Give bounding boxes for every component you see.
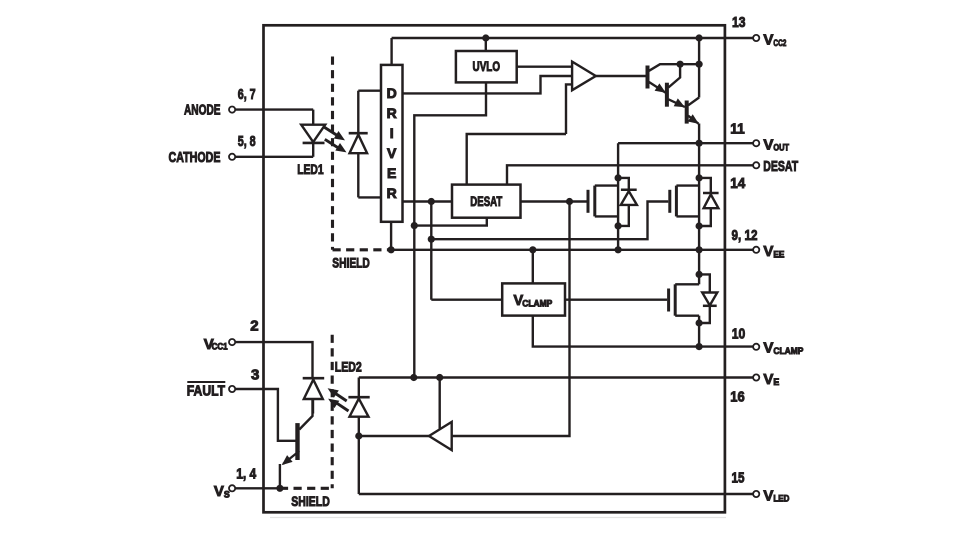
LED2 label [335, 359, 362, 375]
svg-text:1, 4: 1, 4 [236, 465, 257, 482]
svg-text:LED1: LED1 [297, 161, 324, 177]
wire DESAT out to M1 gate [521, 200, 587, 202]
node UVLO-DESAT join [411, 222, 418, 229]
pin VOUT terminal [753, 140, 759, 146]
wire FAULT to Q4 base [235, 389, 296, 441]
node M3 source [696, 319, 703, 326]
wire VCC2 rail [392, 37, 754, 39]
LED1 cathode wire [312, 143, 314, 157]
svg-text:V: V [387, 145, 397, 161]
wire DESAT to buffer [566, 84, 574, 134]
transistor Q4 [280, 399, 313, 488]
svg-text:E: E [387, 165, 396, 181]
wire LED2 to VLED [358, 417, 360, 494]
svg-text:5, 8: 5, 8 [238, 133, 256, 150]
node DESAT left [428, 198, 435, 205]
pin VCC1 label [204, 336, 228, 353]
svg-text:I: I [390, 125, 394, 141]
svg-text:14: 14 [730, 175, 746, 192]
UVLO block [456, 51, 517, 82]
node VEE-M1 [615, 246, 622, 253]
body diode M3 [699, 274, 717, 323]
node rail-UVLO [482, 34, 489, 41]
wire UVLO-DESAT to VE [413, 226, 415, 378]
LED1 anode wire [312, 110, 314, 126]
svg-text:V: V [763, 243, 773, 260]
svg-text:CC1: CC1 [212, 342, 228, 352]
wire ANODE to LED1 [235, 108, 313, 110]
pin 11 label [730, 121, 745, 138]
wire inverter out to LED2 [359, 435, 429, 437]
photodiode PD2 [303, 378, 325, 413]
svg-text:CATHODE: CATHODE [169, 150, 221, 166]
pin VCC2 terminal [753, 35, 759, 41]
svg-text:16: 16 [730, 389, 745, 406]
node Q1-Q2 collector [677, 61, 684, 68]
svg-text:V: V [763, 137, 773, 154]
transistor Q1 [648, 64, 700, 93]
wire VE to inverter top [439, 378, 441, 429]
DESAT block [452, 185, 521, 218]
svg-text:V: V [763, 32, 773, 49]
optical arrow LED1 a [324, 127, 345, 140]
pin ANODE label [184, 103, 221, 119]
body diode M2 [699, 178, 719, 226]
pin 1,4 label [236, 465, 257, 482]
optical arrow LED2 b [328, 399, 348, 411]
transistor Q3 [687, 98, 699, 124]
pin VS label [214, 483, 230, 500]
pin VEE terminal [753, 247, 759, 253]
pin 9,12 label [732, 227, 758, 244]
wire DESAT-left to VCLAMP [430, 202, 432, 300]
wire PD1 bottom to DRIVER [358, 196, 382, 198]
wire VCC1 to photodiode PD2 [235, 342, 313, 378]
svg-text:CLAMP: CLAMP [773, 346, 803, 356]
svg-text:ANODE: ANODE [184, 103, 221, 119]
pin 16 label [730, 389, 745, 406]
svg-text:V: V [763, 340, 773, 357]
pin VCC2 label [763, 32, 786, 49]
svg-text:13: 13 [732, 14, 746, 31]
wire CATHODE to LED1 [235, 156, 313, 158]
wire VCLAMP bottom to pin10 line [533, 316, 754, 347]
svg-text:15: 15 [732, 469, 745, 486]
pin VCC1 terminal [229, 339, 235, 345]
wire rail to UVLO [485, 38, 487, 51]
pin CATHODE label [169, 150, 221, 166]
SHIELD label (bottom) [291, 493, 330, 509]
node M3 drain [696, 271, 703, 278]
LED1 diode [301, 125, 325, 143]
inverter U3 [429, 422, 452, 450]
svg-text:OUT: OUT [773, 143, 789, 153]
pin 6,7 label [238, 86, 256, 103]
node LED2 cathode [355, 432, 362, 439]
pin VS terminal [229, 485, 235, 491]
page rule (faint) [270, 517, 726, 519]
buffer amp U2 [572, 62, 596, 91]
svg-text:DESAT: DESAT [470, 194, 502, 209]
pin ANODE terminal [229, 107, 235, 113]
pin VE label [763, 371, 779, 388]
svg-text:SHIELD: SHIELD [332, 255, 370, 271]
wire VLED line [359, 493, 754, 495]
wire VS [235, 487, 280, 489]
pin DESAT terminal [753, 162, 759, 168]
photodiode PD1 [349, 91, 368, 198]
wire VEE line [391, 249, 753, 251]
node VEE-M3 [696, 246, 703, 253]
transistor Q2 [667, 64, 685, 107]
wire collector rail [698, 38, 700, 98]
wire UVLO out to buffer [517, 65, 572, 67]
svg-text:DESAT: DESAT [763, 158, 798, 175]
node M1 source [615, 222, 622, 229]
svg-text:FAULT: FAULT [187, 384, 225, 400]
body diode M1 [618, 178, 637, 226]
shield 2 dashed line [280, 335, 332, 489]
svg-text:LED: LED [773, 494, 789, 504]
svg-text:V: V [763, 371, 773, 388]
LED2 diode [348, 397, 369, 417]
pin CATHODE terminal [229, 154, 235, 160]
pin VCLAMP terminal [753, 344, 759, 350]
wire VOUT line [618, 142, 753, 144]
node VEE-VCLAMP [529, 246, 536, 253]
mosfet M3 [669, 284, 700, 315]
shield 1 dashed line [333, 57, 389, 250]
pin 2 label [250, 318, 258, 335]
pin 14 label [730, 175, 746, 192]
pin 13 label [732, 14, 746, 31]
wire DESAT pin line [507, 165, 753, 184]
pin FAULT terminal [229, 386, 235, 392]
svg-text:2: 2 [250, 318, 258, 335]
svg-text:V: V [214, 483, 224, 500]
wire DRIVER top to VCC2 rail [390, 38, 392, 65]
svg-text:CC2: CC2 [773, 38, 786, 48]
svg-text:R: R [387, 185, 397, 201]
svg-text:V: V [763, 487, 773, 504]
VCLAMP block [502, 283, 565, 315]
wire VCLAMP out to M3 gate [565, 299, 667, 301]
svg-text:D: D [387, 85, 397, 101]
mosfet M2 [670, 186, 699, 217]
pin 3 label [251, 367, 259, 384]
wire VCLAMP left lead [431, 299, 502, 301]
node M3 pin10 [696, 343, 703, 350]
svg-text:3: 3 [251, 367, 259, 384]
wire PD1 top to DRIVER [358, 89, 382, 91]
svg-text:LED2: LED2 [335, 359, 362, 375]
pin VLED label [763, 487, 789, 504]
svg-text:EE: EE [773, 249, 784, 259]
IC package outline [264, 25, 725, 512]
wire DESAT node to inverter [452, 202, 569, 437]
svg-text:11: 11 [730, 121, 745, 138]
node VS-shield [276, 485, 283, 492]
pin FAULT label [187, 384, 225, 400]
wire DRIVER to buffer [402, 76, 572, 93]
pin VLED terminal [753, 491, 759, 497]
node M2 gate tap [428, 236, 435, 243]
node M2 drain [696, 174, 703, 181]
svg-text:R: R [387, 105, 397, 121]
wire DRIVER to DESAT [402, 200, 452, 202]
node VE-inverter [436, 374, 443, 381]
node collector rail [696, 61, 703, 68]
mosfet M1 [588, 186, 618, 217]
LED1 label [297, 161, 324, 177]
svg-text:UVLO: UVLO [473, 59, 501, 74]
wire to M2 gate [431, 202, 668, 240]
node VE-logic [410, 374, 417, 381]
pin VE terminal [753, 374, 759, 380]
wire UVLO bottom path [414, 82, 486, 225]
wire Q3 emitter to VOUT [698, 124, 700, 144]
wire VE line [359, 376, 754, 378]
pin DESAT label [763, 158, 798, 175]
node M2 source [696, 222, 703, 229]
svg-text:SHIELD: SHIELD [291, 493, 330, 509]
pin VCLAMP label [763, 340, 803, 357]
svg-text:10: 10 [732, 325, 746, 342]
optical arrow LED2 a [328, 388, 347, 401]
pin 15 label [732, 469, 745, 486]
optical arrow LED1 b [325, 139, 347, 152]
node DESAT out [566, 198, 573, 205]
wire buffer out to Q1 base [596, 75, 646, 77]
wire DESAT bottom [414, 218, 487, 226]
svg-text:9, 12: 9, 12 [732, 227, 758, 244]
pin 5,8 label [238, 133, 256, 150]
node M1 drain [615, 174, 622, 181]
svg-text:CLAMP: CLAMP [522, 298, 552, 308]
SHIELD label (top) [332, 255, 370, 271]
pin 10 label [732, 325, 746, 342]
node VEE-shield-driver [388, 246, 395, 253]
wire M1 drain-source [617, 143, 619, 250]
pin VOUT label [763, 137, 789, 154]
wire VEE to M3 drain [698, 250, 700, 284]
pin FAULT overline [187, 381, 225, 383]
node rail-output stage [696, 34, 703, 41]
wire VEE to VCLAMP [532, 250, 534, 284]
wire M2 drain-source [698, 143, 700, 250]
node VOUT [696, 140, 703, 147]
pin VEE label [763, 243, 784, 260]
wire VE to LED2 [358, 378, 360, 398]
svg-text:6, 7: 6, 7 [238, 86, 256, 103]
wire DRIVER bottom to VEE [390, 222, 392, 250]
driver block U1 [381, 65, 403, 222]
wire M3 source to pin10 [698, 316, 700, 347]
svg-text:E: E [773, 377, 779, 387]
wire DESAT up to buffer [467, 134, 566, 185]
